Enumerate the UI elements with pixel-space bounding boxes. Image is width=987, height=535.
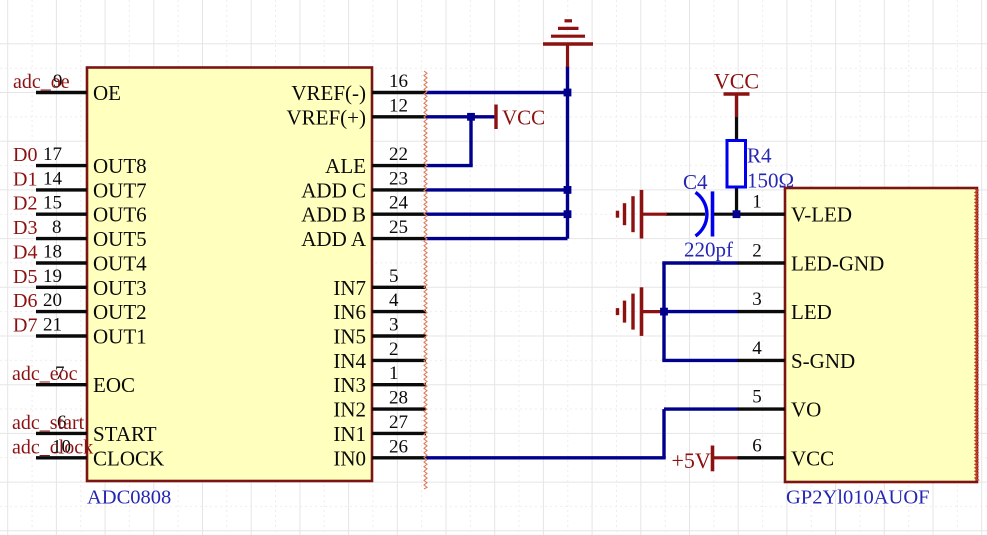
pin 1 V-LED (GP2Y sensor) xyxy=(733,192,852,227)
svg-text:EOC: EOC xyxy=(93,373,135,397)
pin 12 VREF(+) (ADC0808 right) xyxy=(286,95,426,129)
svg-text:START: START xyxy=(93,422,157,446)
wire ALE pin22 horizontal xyxy=(426,164,473,167)
wire ALE to VREF(+) vertical xyxy=(469,117,472,166)
pin 3 IN5 (ADC0808 right) xyxy=(333,315,426,349)
net label adc_clock xyxy=(12,436,93,458)
svg-text:VCC: VCC xyxy=(714,69,759,94)
net label D3 xyxy=(13,217,37,239)
svg-text:IN0: IN0 xyxy=(333,446,366,470)
pin 23 ADD C (ADC0808 right) xyxy=(301,168,426,202)
wire LED pin3 to ground junction xyxy=(664,310,738,313)
IC U2 GP2Yl010AUOF body xyxy=(785,188,977,482)
svg-text:23: 23 xyxy=(389,168,408,189)
pin 10 CLOCK (ADC0808 left) xyxy=(36,436,164,470)
wire VREF(-) pin16 to ground net xyxy=(426,91,568,94)
pin 27 IN1 (ADC0808 right) xyxy=(333,412,426,446)
svg-text:14: 14 xyxy=(43,168,63,189)
svg-text:VO: VO xyxy=(791,398,821,422)
net label adc_start xyxy=(12,412,85,434)
svg-text:V-LED: V-LED xyxy=(791,203,852,227)
net label adc_oe xyxy=(13,71,70,93)
pin 4 IN6 (ADC0808 right) xyxy=(333,290,426,324)
wire IN0 pin26 to sensor xyxy=(426,456,666,459)
svg-text:19: 19 xyxy=(43,266,62,287)
svg-text:VCC: VCC xyxy=(791,446,834,470)
svg-text:S-GND: S-GND xyxy=(791,349,855,373)
pin 21 OUT1 (ADC0808 left) xyxy=(36,315,147,349)
svg-text:VREF(+): VREF(+) xyxy=(286,105,366,129)
net label D6 xyxy=(13,290,37,312)
svg-text:OUT4: OUT4 xyxy=(93,252,147,276)
net label D1 xyxy=(13,168,37,190)
svg-text:8: 8 xyxy=(52,217,62,238)
power port VCC (above R4) xyxy=(714,69,759,118)
pin 18 OUT4 (ADC0808 left) xyxy=(36,242,147,276)
junction ADD B xyxy=(564,210,572,218)
wire vertical IN0 net up to VO row xyxy=(662,409,665,458)
svg-text:adc_eoc: adc_eoc xyxy=(12,363,78,385)
svg-text:15: 15 xyxy=(43,193,62,214)
pin 20 OUT2 (ADC0808 left) xyxy=(36,290,147,324)
svg-text:C4: C4 xyxy=(683,170,708,194)
svg-text:OUT2: OUT2 xyxy=(93,300,147,324)
pin 8 OUT5 (ADC0808 left) xyxy=(36,217,147,251)
pin 7 EOC (ADC0808 left) xyxy=(36,363,135,397)
svg-text:IN3: IN3 xyxy=(333,373,366,397)
pin 6 VCC (GP2Y sensor) xyxy=(738,435,835,470)
svg-text:5: 5 xyxy=(752,387,762,408)
svg-text:IN4: IN4 xyxy=(333,349,366,373)
junction VREF(+)/ALE/VCC xyxy=(467,113,475,121)
pin 15 OUT6 (ADC0808 left) xyxy=(36,193,147,227)
svg-text:IN2: IN2 xyxy=(333,398,366,422)
svg-text:D1: D1 xyxy=(13,168,37,190)
svg-text:24: 24 xyxy=(389,193,409,214)
svg-text:6: 6 xyxy=(752,435,762,456)
svg-text:OUT5: OUT5 xyxy=(93,227,147,251)
pin 2 IN4 (ADC0808 right) xyxy=(333,339,426,373)
svg-text:OUT7: OUT7 xyxy=(93,178,147,202)
net label D2 xyxy=(13,193,37,215)
junction VREF(-)/ground net xyxy=(564,89,572,97)
pin 16 VREF(-) (ADC0808 right) xyxy=(291,71,426,105)
svg-text:D5: D5 xyxy=(13,266,37,288)
svg-text:17: 17 xyxy=(43,144,62,165)
pin 25 ADD A (ADC0808 right) xyxy=(301,217,426,251)
svg-text:3: 3 xyxy=(389,315,399,336)
svg-text:adc_clock: adc_clock xyxy=(12,436,93,458)
ground (power) at LED pin3 xyxy=(618,287,665,336)
pin 6 START (ADC0808 left) xyxy=(36,412,157,446)
svg-text:adc_oe: adc_oe xyxy=(13,71,70,93)
pin 2 LED-GND (GP2Y sensor) xyxy=(738,241,885,276)
svg-text:21: 21 xyxy=(43,315,62,336)
svg-text:16: 16 xyxy=(389,71,408,92)
svg-text:4: 4 xyxy=(752,338,762,359)
power port +5V (at sensor VCC pin6) xyxy=(672,446,738,474)
net label D5 xyxy=(13,266,37,288)
pin 14 OUT7 (ADC0808 left) xyxy=(36,168,147,202)
svg-text:22: 22 xyxy=(389,144,408,165)
svg-text:26: 26 xyxy=(389,436,408,457)
svg-text:1: 1 xyxy=(752,192,762,213)
wire vertical pin2-pin4 net xyxy=(662,263,665,360)
wire ADD A pin25 to ground net xyxy=(426,237,568,240)
svg-text:12: 12 xyxy=(389,95,408,116)
designator label GP2Yl010AUOF xyxy=(786,487,930,509)
pin 5 IN7 (ADC0808 right) xyxy=(333,266,426,300)
svg-text:1: 1 xyxy=(389,363,399,384)
pin 22 ALE (ADC0808 right) xyxy=(325,144,426,178)
svg-text:2: 2 xyxy=(752,241,762,262)
svg-text:VCC: VCC xyxy=(502,106,545,130)
pin 9 OE (ADC0808 left) xyxy=(36,71,121,105)
svg-text:ADD C: ADD C xyxy=(301,178,366,202)
svg-text:adc_start: adc_start xyxy=(12,412,85,434)
svg-text:4: 4 xyxy=(389,290,399,311)
svg-text:ADD A: ADD A xyxy=(301,227,367,251)
svg-text:D4: D4 xyxy=(13,242,37,264)
svg-text:OUT1: OUT1 xyxy=(93,325,147,349)
svg-text:ALE: ALE xyxy=(325,154,366,178)
net label D0 xyxy=(13,144,37,166)
svg-text:OE: OE xyxy=(93,81,121,105)
svg-text:IN5: IN5 xyxy=(333,325,366,349)
svg-text:OUT8: OUT8 xyxy=(93,154,147,178)
pin 28 IN2 (ADC0808 right) xyxy=(333,388,426,422)
svg-text:D7: D7 xyxy=(13,315,37,337)
svg-text:2: 2 xyxy=(389,339,399,360)
ground (power) left of C4 xyxy=(618,190,668,239)
junction ADD C xyxy=(564,186,572,194)
pin 24 ADD B (ADC0808 right) xyxy=(301,193,426,227)
wire ADD B pin24 to ground net xyxy=(426,212,568,215)
svg-text:20: 20 xyxy=(43,290,62,311)
svg-text:3: 3 xyxy=(752,289,762,310)
svg-text:D0: D0 xyxy=(13,144,37,166)
svg-text:5: 5 xyxy=(389,266,399,287)
svg-text:IN7: IN7 xyxy=(333,276,366,300)
svg-text:GP2Yl010AUOF: GP2Yl010AUOF xyxy=(786,487,930,509)
pin 1 IN3 (ADC0808 right) xyxy=(333,363,426,397)
net label D4 xyxy=(13,242,37,264)
resistor R4 150ohm xyxy=(727,94,794,214)
svg-text:27: 27 xyxy=(389,412,408,433)
no-ERC wavy mark at sensor right edge xyxy=(975,189,978,480)
net label D7 xyxy=(13,315,37,337)
net label adc_eoc xyxy=(12,363,78,385)
power port VCC (at VREF+) xyxy=(496,105,545,130)
svg-text:D6: D6 xyxy=(13,290,37,312)
svg-text:+5V: +5V xyxy=(672,448,711,473)
designator label ADC0808 xyxy=(87,487,171,509)
svg-text:220pf: 220pf xyxy=(684,238,733,262)
svg-text:R4: R4 xyxy=(747,144,772,168)
svg-text:OUT3: OUT3 xyxy=(93,276,147,300)
junction LED/ground xyxy=(660,308,668,316)
svg-text:25: 25 xyxy=(389,217,408,238)
no-ERC wavy mark at ADC pin ends xyxy=(424,71,427,489)
wire VREF(+) pin12 to VCC port xyxy=(426,115,496,118)
svg-text:18: 18 xyxy=(43,242,62,263)
junction R4/C4/V-LED xyxy=(733,210,741,218)
svg-text:28: 28 xyxy=(389,388,408,409)
svg-text:VREF(-): VREF(-) xyxy=(291,81,366,105)
svg-text:OUT6: OUT6 xyxy=(93,203,147,227)
wire to VO pin5 xyxy=(664,407,738,410)
pin 5 VO (GP2Y sensor) xyxy=(738,387,822,422)
svg-text:ADD B: ADD B xyxy=(301,203,366,227)
wire S-GND pin4 horizontal xyxy=(662,359,737,362)
capacitor C4 220pf xyxy=(666,170,737,262)
wire LED-GND pin2 horizontal xyxy=(662,261,737,264)
ground (earth) top xyxy=(543,21,593,67)
IC U1 ADC0808 body xyxy=(87,68,372,482)
svg-text:LED: LED xyxy=(791,300,832,324)
svg-text:IN1: IN1 xyxy=(333,422,366,446)
svg-text:IN6: IN6 xyxy=(333,300,366,324)
svg-text:CLOCK: CLOCK xyxy=(93,446,164,470)
pin 26 IN0 (ADC0808 right) xyxy=(333,436,426,470)
wire ADD C pin23 to ground net xyxy=(426,188,568,191)
pin 17 OUT8 (ADC0808 left) xyxy=(36,144,147,178)
svg-text:D2: D2 xyxy=(13,193,37,215)
svg-text:ADC0808: ADC0808 xyxy=(87,487,171,509)
pin 19 OUT3 (ADC0808 left) xyxy=(36,266,147,300)
wire vertical ground net (top ground to ADD A) xyxy=(566,66,569,239)
pin 4 S-GND (GP2Y sensor) xyxy=(738,338,856,373)
pin 3 LED (GP2Y sensor) xyxy=(738,289,832,324)
svg-text:LED-GND: LED-GND xyxy=(791,252,884,276)
svg-text:D3: D3 xyxy=(13,217,37,239)
